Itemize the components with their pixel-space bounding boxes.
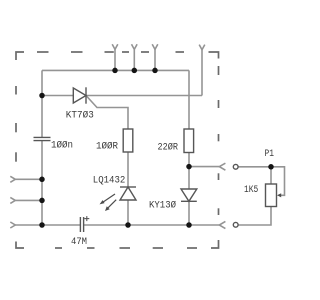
- LED D1 light arrows: [100, 194, 117, 211]
- thyristor Q1 KT703 body: [73, 87, 86, 103]
- junction dot top rail 1: [112, 68, 118, 74]
- antenna pin Y3: [152, 44, 158, 70]
- enclosure bottom edge: [16, 242, 197, 249]
- svg-text:1K5: 1K5: [244, 185, 258, 196]
- antenna pin Y4: [199, 45, 205, 96]
- svg-text:1ØØn: 1ØØn: [51, 140, 73, 152]
- wire terminal to P1 node: [238, 166, 271, 168]
- junction dot left rail pin1: [39, 177, 45, 183]
- pin chevron left 3: [10, 222, 15, 228]
- junction dot P1 top: [268, 164, 274, 170]
- wire top rail: [42, 69, 189, 71]
- wire R1 to LED: [127, 152, 129, 187]
- antenna pin Y1: [112, 44, 118, 70]
- capacitor C1 100n plates: [34, 137, 51, 140]
- svg-text:LQ1432: LQ1432: [93, 175, 126, 186]
- junction dot R2 KY130 node: [186, 164, 192, 170]
- enclosure left edge: [15, 86, 17, 162]
- potentiometer P1 body: [266, 184, 277, 207]
- wire P1 bottom to terminal: [238, 207, 271, 226]
- resistor R1 100R: [123, 129, 133, 152]
- wire thyristor anode: [42, 95, 73, 97]
- wire bottom rail left of C2: [15, 224, 80, 226]
- junction dot left rail thyristor: [39, 93, 45, 99]
- junction dot top rail 3: [152, 68, 158, 74]
- svg-text:47M: 47M: [71, 237, 87, 248]
- junction dot left rail pin2: [39, 198, 45, 204]
- svg-text:KT7Ø3: KT7Ø3: [66, 110, 94, 122]
- resistor R2 220R: [184, 129, 194, 153]
- capacitor C2 47M plates and polarity: [80, 217, 83, 232]
- wire top rail corner down to R2: [188, 70, 190, 129]
- terminal circle lower: [233, 222, 238, 227]
- wire R2 to node: [188, 153, 190, 167]
- dashed module enclosure: [16, 52, 219, 248]
- wire thyristor cathode to Y4: [86, 95, 202, 97]
- svg-text:1ØØR: 1ØØR: [96, 141, 118, 153]
- svg-text:P1: P1: [265, 149, 275, 160]
- wire bottom rail right of C2: [84, 224, 220, 226]
- component outlines: [34, 87, 282, 232]
- svg-text:22ØR: 22ØR: [158, 142, 179, 154]
- terminal circle upper: [233, 164, 238, 169]
- wire KY130 to bottom rail: [188, 201, 190, 225]
- antenna pin Y2: [132, 44, 138, 70]
- enclosure right edge: [211, 66, 219, 248]
- wire node to right pin upper: [189, 166, 219, 168]
- wire node down to KY130: [188, 167, 190, 189]
- pin chevron right upper: [219, 163, 225, 170]
- wire LED to bottom rail: [127, 200, 129, 225]
- pin chevron left 2: [10, 197, 42, 203]
- junction dot KY130 bottom: [186, 222, 192, 228]
- wire left rail upper: [41, 70, 43, 137]
- LED D1 LQ1432: [120, 187, 136, 200]
- wire P1 wiper feed: [271, 167, 285, 196]
- P1 wiper arrow head: [277, 193, 281, 197]
- junction dot left rail bottom: [39, 222, 45, 228]
- pin chevron right lower: [219, 221, 225, 228]
- wire thyristor gate to R1: [86, 96, 128, 130]
- diode D2 KY130: [181, 189, 197, 201]
- enclosure top edge: [16, 52, 219, 60]
- junction dot top rail 2: [132, 68, 138, 74]
- wire left rail lower: [41, 141, 43, 225]
- svg-text:KY13Ø: KY13Ø: [149, 200, 176, 212]
- pin chevron left 1: [10, 176, 42, 182]
- junction dot LED bottom: [125, 222, 131, 228]
- wire P1 node to body: [270, 167, 272, 184]
